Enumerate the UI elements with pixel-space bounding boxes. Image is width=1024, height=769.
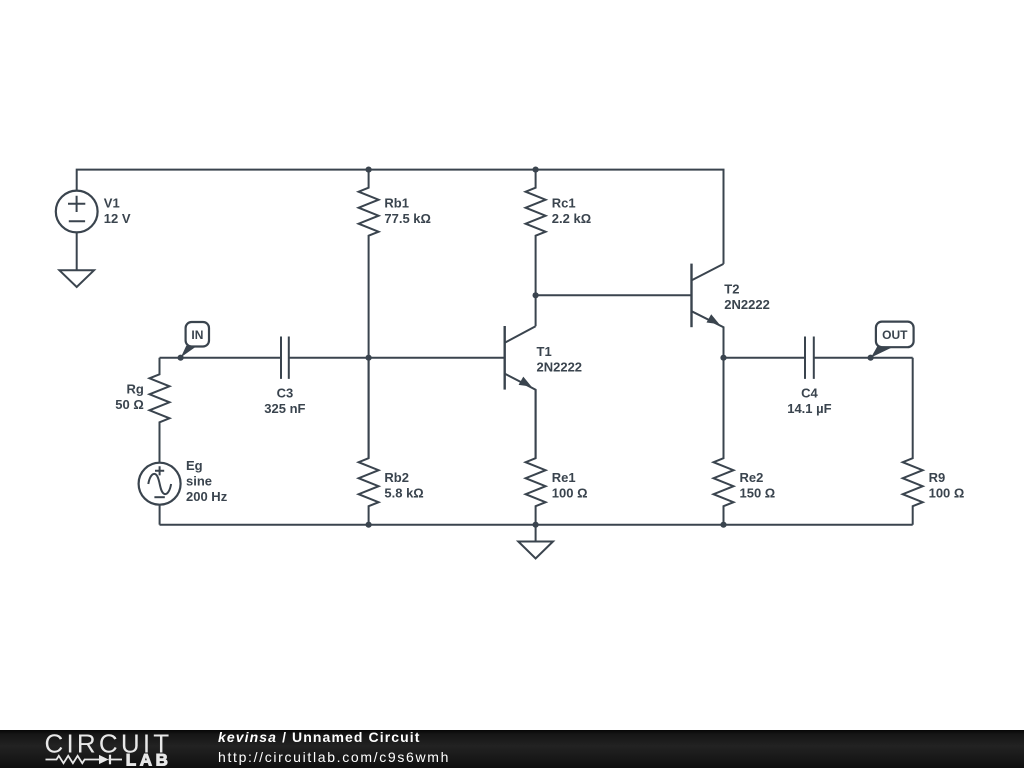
svg-text:C3: C3 (277, 385, 294, 400)
svg-text:V1: V1 (104, 195, 120, 210)
svg-text:200 Hz: 200 Hz (186, 489, 228, 504)
resistor Rg (150, 358, 170, 463)
svg-text:T2: T2 (724, 282, 739, 297)
svg-text:100 Ω: 100 Ω (552, 485, 588, 500)
svg-text:Rb1: Rb1 (384, 196, 409, 211)
svg-text:sine: sine (186, 473, 212, 488)
capacitor C3 (281, 337, 505, 379)
Rg label (115, 382, 144, 413)
svg-text:OUT: OUT (882, 328, 908, 342)
resistor Rb1 (359, 170, 379, 458)
junction T2 emitter / Re2 / C4 (720, 355, 726, 361)
svg-text:R9: R9 (929, 470, 946, 485)
svg-text:2N2222: 2N2222 (537, 360, 583, 375)
capacitor C4 (805, 337, 913, 379)
transistor T2 (692, 264, 724, 358)
svg-text:LAB: LAB (126, 750, 172, 769)
resistor Re1 (526, 390, 546, 525)
ground (bottom rail) (518, 525, 553, 559)
C3 label (264, 385, 305, 416)
svg-text:T1: T1 (537, 344, 552, 359)
V1 label (104, 195, 131, 226)
Re1 label (552, 470, 588, 501)
svg-text:Eg: Eg (186, 458, 203, 473)
Rc1 label (552, 196, 591, 227)
svg-text:2N2222: 2N2222 (724, 297, 770, 312)
flag IN (178, 322, 210, 361)
svg-text:Rg: Rg (126, 382, 143, 397)
junction Rb2 / bottom rail (366, 522, 372, 528)
junction T1 collector / T2 base (533, 292, 539, 298)
junction Rb1 / top rail (366, 167, 372, 173)
footer title text (218, 730, 421, 744)
svg-text:Re1: Re1 (552, 470, 576, 485)
source Eg (139, 463, 181, 525)
resistor R9 (903, 358, 923, 525)
junction Re1 / ground / bottom rail (533, 522, 539, 528)
svg-text:100 Ω: 100 Ω (929, 485, 965, 500)
junction Re2 / bottom rail (720, 522, 726, 528)
transistor T1 (505, 326, 536, 458)
resistor Re2 (714, 358, 734, 525)
wire input row (160, 357, 282, 359)
svg-text:2.2 kΩ: 2.2 kΩ (552, 211, 591, 226)
junction Rb2 / input row (366, 355, 372, 361)
svg-text:50 Ω: 50 Ω (115, 397, 144, 412)
svg-text:12 V: 12 V (104, 211, 131, 226)
Rb2 label (384, 470, 423, 501)
R9 label (929, 470, 965, 501)
Rb1 label (384, 196, 431, 227)
voltage source V1 (56, 191, 98, 271)
wire output row (724, 357, 806, 359)
ground (under V1) (59, 270, 94, 287)
flag OUT (868, 322, 914, 361)
svg-text:Re2: Re2 (740, 470, 764, 485)
svg-text:325 nF: 325 nF (264, 401, 305, 416)
Re2 label (740, 470, 776, 501)
svg-text:C4: C4 (801, 385, 818, 400)
C4 label (787, 385, 831, 416)
T2 label (724, 282, 770, 313)
footer url text (218, 750, 450, 764)
svg-text:Rb2: Rb2 (384, 470, 409, 485)
svg-text:14.1 µF: 14.1 µF (787, 401, 831, 416)
svg-text:IN: IN (191, 328, 203, 342)
wire top rail (77, 170, 724, 264)
resistor Rb2 (359, 358, 379, 525)
svg-text:Rc1: Rc1 (552, 196, 576, 211)
svg-text:150 Ω: 150 Ω (740, 485, 776, 500)
wire bottom rail (160, 524, 913, 526)
T1 label (537, 344, 583, 375)
resistor Rc1 (526, 170, 546, 327)
Eg label (186, 458, 228, 504)
CircuitLab logo (0, 730, 215, 769)
footer bar (0, 730, 1024, 768)
wire T2 base row (536, 294, 692, 296)
svg-text:5.8 kΩ: 5.8 kΩ (384, 485, 423, 500)
junction Rc1 / top rail (533, 167, 539, 173)
svg-text:77.5 kΩ: 77.5 kΩ (384, 211, 431, 226)
